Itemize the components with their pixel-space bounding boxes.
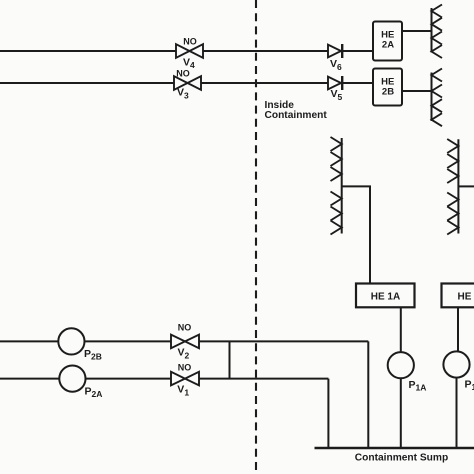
- svg-text:2B: 2B: [382, 87, 394, 98]
- wire pipe LB-a (left inlet to pump P2A): [0, 378, 59, 380]
- wire pipe LB-b (pump P2A to V1): [86, 378, 172, 380]
- spray nozzle 1.4: [432, 45, 443, 58]
- pump P1B: [443, 351, 469, 377]
- valve V3: [174, 76, 201, 90]
- wire pipe L1b (V4 to V6): [203, 50, 328, 52]
- wire pipe LB-c (V1 across boundary): [199, 378, 328, 380]
- spray nozzle 4.2: [447, 154, 458, 168]
- spray header 3 (vertical): [341, 138, 343, 234]
- spray nozzle 1.1: [432, 5, 443, 18]
- spray nozzle 3.2: [331, 152, 342, 166]
- wire tie between discharge lines: [229, 341, 231, 378]
- wire pipe HE 1A to pump P1A: [400, 307, 402, 352]
- svg-text:Containment Sump: Containment Sump: [355, 453, 448, 464]
- containment boundary (dashed line): [255, 0, 257, 474]
- spray nozzle 2.1: [432, 69, 443, 82]
- spray nozzle 3.4: [331, 192, 342, 206]
- spray nozzle 4.5: [447, 207, 458, 221]
- spray nozzle 1.3: [432, 32, 443, 45]
- spray nozzle 3.3: [331, 167, 342, 181]
- svg-text:HE 1A: HE 1A: [371, 292, 400, 303]
- wire drop A to sump: [367, 341, 369, 448]
- wire pipe pump P1A to sump: [400, 378, 402, 448]
- spray nozzle 4.4: [447, 193, 458, 207]
- wire drop B to sump: [327, 379, 329, 448]
- wire feed to spray header 4: [458, 185, 474, 187]
- wire pipe L2a (left inlet to V3): [0, 82, 174, 84]
- svg-text:2A: 2A: [382, 40, 394, 51]
- wire pipe pump P1B to sump: [456, 378, 458, 448]
- spray nozzle 1.2: [432, 18, 443, 31]
- spray nozzle 2.2: [432, 85, 443, 98]
- svg-text:NO: NO: [178, 323, 192, 333]
- heat exchanger HE 1A: [356, 284, 415, 308]
- spray nozzle 3.1: [331, 137, 342, 151]
- spray nozzle 4.3: [447, 169, 458, 183]
- spray nozzle 2.3: [432, 99, 443, 112]
- svg-text:HE 1B: HE 1B: [458, 292, 474, 303]
- wire feed to spray header 3: [342, 186, 370, 283]
- wire pipe LA-c (V2 across boundary): [199, 340, 368, 342]
- pump P1A: [388, 352, 414, 378]
- spray nozzle 2.4: [432, 113, 443, 126]
- svg-text:NO: NO: [183, 37, 197, 47]
- spray nozzle 3.5: [331, 207, 342, 221]
- check valve V6: [328, 44, 342, 58]
- wire pipe L2b (V3 to V5): [201, 82, 328, 84]
- heat exchanger HE 1B (cropped at right edge): [442, 284, 474, 308]
- wire pipe L1a (left inlet to V4): [0, 50, 176, 52]
- containment sump line: [315, 447, 474, 450]
- pump P2B: [58, 328, 84, 354]
- wire pipe LA-b (pump P2B to V2): [85, 340, 172, 342]
- svg-text:Containment: Containment: [265, 110, 328, 121]
- spray nozzle 3.6: [331, 221, 342, 235]
- spray header 4 (vertical): [457, 139, 459, 233]
- spray nozzle 4.1: [447, 139, 458, 153]
- check valve V5: [328, 76, 342, 90]
- valve V4: [176, 44, 203, 58]
- heat exchanger HE 2B: [373, 69, 402, 106]
- spray header 1 (vertical): [431, 8, 433, 53]
- svg-text:NO: NO: [176, 69, 190, 79]
- wire pipe outlet HE 2A to spray header 1: [402, 30, 432, 32]
- heat exchanger HE 2A: [373, 22, 402, 61]
- wire pipe L1c (V6 to HE 2A): [342, 50, 373, 52]
- valve V2: [171, 335, 199, 349]
- spray header 2 (vertical): [431, 73, 433, 122]
- svg-text:NO: NO: [178, 363, 192, 373]
- wire pipe L2c (V5 to HE 2B): [342, 82, 373, 84]
- wire pipe LA-a (left inlet to pump P2B): [0, 340, 58, 342]
- wire pipe HE 1B to pump P1B: [457, 307, 459, 352]
- pump P2A: [59, 366, 85, 392]
- valve V1: [171, 372, 199, 386]
- wire pipe outlet HE 2B to spray header 2: [402, 90, 432, 92]
- spray nozzle 4.6: [447, 221, 458, 235]
